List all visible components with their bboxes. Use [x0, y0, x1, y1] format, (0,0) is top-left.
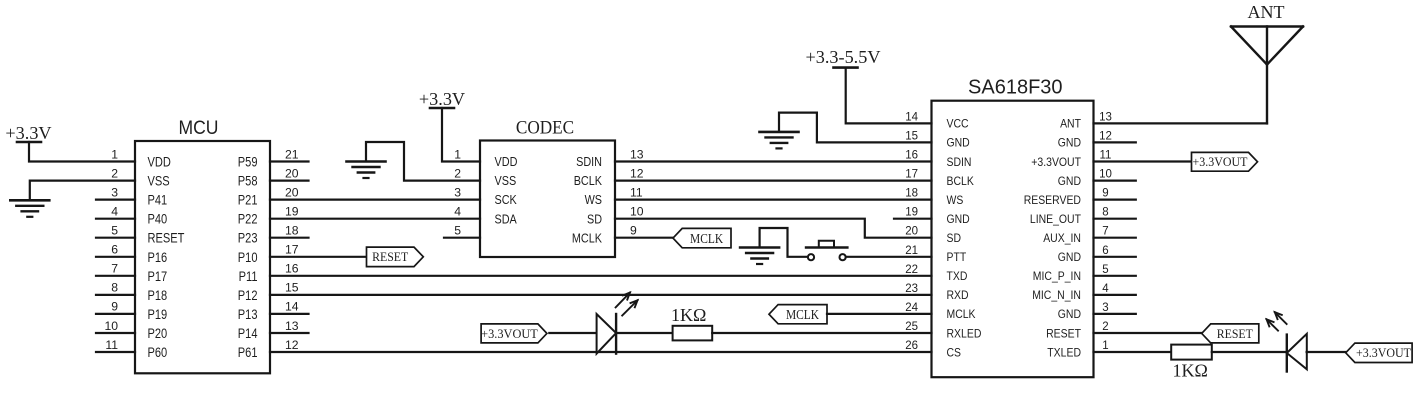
- wire MCU right pin 18 stub: [270, 237, 309, 239]
- wire MCU right pin 20 stub: [270, 180, 309, 182]
- wire CODEC pin 5 stub: [444, 237, 480, 239]
- wire MCU pin 8 stub: [96, 294, 135, 296]
- svg-text:SA618F30: SA618F30: [968, 77, 1063, 99]
- svg-text:RESET: RESET: [372, 249, 408, 264]
- svg-text:17: 17: [285, 243, 299, 257]
- svg-text:12: 12: [630, 166, 644, 180]
- net label MCLK (SA618F30 side): [769, 305, 827, 324]
- svg-text:1KΩ: 1KΩ: [671, 305, 706, 325]
- wire MCU pin 6 stub: [96, 256, 135, 258]
- net label +3.3VOUT (pin 11): [1192, 152, 1258, 171]
- wire SA618F30 pin 19 stub: [894, 218, 932, 220]
- svg-text:P13: P13: [238, 307, 258, 323]
- svg-text:VSS: VSS: [148, 174, 170, 190]
- svg-text:3: 3: [1102, 302, 1108, 314]
- svg-text:3: 3: [454, 185, 461, 199]
- svg-text:6: 6: [111, 243, 118, 257]
- svg-text:1KΩ: 1KΩ: [1173, 361, 1208, 381]
- wire +3.3V to CODEC pin 1 (VDD): [442, 108, 480, 162]
- svg-text:GND: GND: [947, 136, 970, 150]
- wire SA618F30 right pin stub row 4: [1094, 218, 1136, 220]
- svg-text:17: 17: [905, 169, 918, 181]
- svg-text:1: 1: [111, 147, 118, 161]
- svg-text:11: 11: [630, 185, 643, 199]
- svg-text:P61: P61: [238, 345, 258, 361]
- wire SA618F30 pin 1 (TXLED) to resistor R2: [1094, 351, 1172, 353]
- svg-text:RESET: RESET: [148, 231, 185, 247]
- svg-text:+3.3VOUT: +3.3VOUT: [1031, 155, 1081, 169]
- wire SA618F30 right pin stub row 6: [1094, 256, 1136, 258]
- svg-text:BCLK: BCLK: [574, 173, 602, 188]
- svg-text:RXD: RXD: [947, 288, 969, 302]
- ground (SA618F30 pin 15): [760, 132, 799, 149]
- svg-text:GND: GND: [1058, 250, 1081, 264]
- svg-text:SDA: SDA: [495, 211, 517, 226]
- wire MCU P10 to RESET label: [270, 256, 367, 258]
- svg-text:10: 10: [1099, 169, 1112, 181]
- svg-text:8: 8: [111, 281, 118, 295]
- svg-text:8: 8: [1102, 207, 1108, 219]
- svg-text:CS: CS: [947, 345, 962, 359]
- wire +3.3V to MCU pin 1 (VDD): [29, 142, 135, 162]
- svg-text:P40: P40: [148, 212, 168, 228]
- svg-text:SDIN: SDIN: [947, 155, 972, 169]
- svg-text:WS: WS: [947, 193, 964, 207]
- wire MCU P61 to SA618F30 CS: [270, 351, 932, 353]
- SA618F30 U3 box: [932, 101, 1094, 378]
- power +3.3-5.5V: [806, 47, 881, 68]
- svg-text:SD: SD: [587, 211, 602, 226]
- wire LED D2 anode to +3.3VOUT label: [1307, 351, 1346, 353]
- svg-text:2: 2: [1102, 321, 1108, 333]
- svg-text:P41: P41: [148, 193, 168, 209]
- svg-text:12: 12: [1099, 130, 1112, 142]
- wire MCU P11 to SA618F30 TXD: [270, 275, 932, 277]
- wire SA618F30 right pin stub row 0: [1094, 141, 1136, 143]
- svg-text:GND: GND: [1058, 307, 1081, 321]
- svg-text:5: 5: [454, 224, 461, 238]
- wire MCU pin 7 stub: [96, 275, 135, 277]
- svg-text:P60: P60: [148, 345, 168, 361]
- svg-text:21: 21: [285, 147, 299, 161]
- wire SA618F30 right pin stub row 5: [1094, 237, 1136, 239]
- resistor R1: [673, 326, 713, 341]
- svg-text:P14: P14: [238, 326, 258, 342]
- svg-text:+3.3-5.5V: +3.3-5.5V: [806, 47, 881, 67]
- svg-text:22: 22: [905, 264, 918, 276]
- svg-text:19: 19: [905, 207, 918, 219]
- svg-text:13: 13: [285, 319, 299, 333]
- net label +3.3VOUT (TXLED): [1346, 343, 1412, 362]
- svg-text:CODEC: CODEC: [516, 119, 574, 139]
- svg-text:16: 16: [905, 150, 918, 162]
- svg-text:SD: SD: [947, 231, 962, 245]
- svg-text:11: 11: [1100, 150, 1112, 162]
- wire MCU P12 to SA618F30 RXD: [270, 294, 932, 296]
- CODEC U2 box: [480, 141, 615, 258]
- svg-text:MIC_N_IN: MIC_N_IN: [1032, 288, 1081, 302]
- svg-text:+3.3V: +3.3V: [419, 89, 465, 109]
- wire CODEC BCLK to SA618F30 BCLK: [615, 180, 932, 182]
- svg-text:GND: GND: [1058, 136, 1081, 150]
- svg-text:SCK: SCK: [495, 192, 517, 207]
- svg-text:P18: P18: [148, 288, 168, 304]
- svg-text:3: 3: [111, 185, 118, 199]
- svg-text:P17: P17: [148, 269, 168, 285]
- svg-text:18: 18: [285, 224, 299, 238]
- svg-text:9: 9: [111, 300, 118, 314]
- svg-text:RESET: RESET: [1046, 326, 1081, 340]
- svg-text:GND: GND: [1058, 174, 1081, 188]
- svg-text:RXLED: RXLED: [947, 326, 982, 340]
- svg-text:23: 23: [905, 283, 918, 295]
- svg-text:9: 9: [1102, 188, 1108, 200]
- svg-text:TXD: TXD: [947, 269, 968, 283]
- svg-text:AUX_IN: AUX_IN: [1043, 231, 1081, 245]
- wire SA618F30 pin 2 (RESET) to label: [1094, 332, 1202, 334]
- wire MCU pin 3 stub: [96, 199, 135, 201]
- wire CODEC MCLK to MCLK label: [615, 237, 673, 239]
- svg-text:20: 20: [905, 226, 918, 238]
- net label RESET (MCU side): [367, 247, 424, 267]
- svg-text:WS: WS: [585, 192, 603, 207]
- svg-text:13: 13: [1099, 111, 1112, 123]
- svg-text:+3.3VOUT: +3.3VOUT: [1356, 345, 1411, 360]
- svg-text:P22: P22: [238, 212, 258, 228]
- svg-text:10: 10: [104, 319, 118, 333]
- ground (CODEC VSS): [347, 162, 386, 179]
- svg-text:P10: P10: [238, 250, 258, 266]
- svg-text:MCLK: MCLK: [690, 231, 723, 246]
- svg-text:BCLK: BCLK: [947, 174, 975, 188]
- svg-text:21: 21: [905, 245, 918, 257]
- wire SA618F30 pin 13 (ANT) to antenna: [1094, 122, 1268, 124]
- svg-text:12: 12: [285, 338, 299, 352]
- wire LED D1 cathode to resistor R1: [616, 332, 673, 334]
- svg-text:19: 19: [285, 205, 299, 219]
- wire resistor R1 to SA618F30 pin 25 (RXLED): [712, 332, 931, 334]
- net label RESET (SA618F30 side): [1202, 324, 1259, 343]
- wire MCU right pin 21 stub: [270, 160, 309, 162]
- wire MCU P21 to CODEC SCK: [270, 199, 480, 201]
- power +3.3V (MCU): [5, 123, 51, 143]
- wire MCU pin 10 stub: [96, 332, 135, 334]
- MCU U1 box: [135, 141, 270, 373]
- svg-text:15: 15: [285, 281, 299, 295]
- svg-text:11: 11: [105, 338, 118, 352]
- wire MCU pin 11 stub: [96, 351, 135, 353]
- antenna ANT: [1231, 2, 1303, 123]
- svg-text:24: 24: [905, 302, 918, 314]
- wire MCU pin 2 (VSS) to ground: [30, 181, 135, 200]
- resistor R2: [1171, 345, 1212, 360]
- svg-text:VDD: VDD: [495, 154, 518, 169]
- svg-text:MCLK: MCLK: [947, 307, 977, 321]
- svg-text:13: 13: [630, 147, 644, 161]
- svg-text:ANT: ANT: [1060, 117, 1081, 131]
- svg-text:4: 4: [111, 205, 118, 219]
- svg-text:ANT: ANT: [1248, 2, 1285, 22]
- wire SA618F30 right pin stub row 8: [1094, 294, 1136, 296]
- svg-text:14: 14: [905, 111, 918, 123]
- svg-text:9: 9: [630, 224, 637, 238]
- LED D2: [1267, 312, 1307, 371]
- ground (MCU VSS): [10, 200, 49, 217]
- svg-text:P19: P19: [148, 307, 168, 323]
- wire SA618F30 right pin stub row 3: [1094, 199, 1136, 201]
- svg-text:MCLK: MCLK: [786, 307, 819, 322]
- svg-text:P21: P21: [238, 193, 258, 209]
- svg-text:MCU: MCU: [179, 117, 219, 139]
- svg-text:26: 26: [905, 340, 918, 352]
- svg-text:VDD: VDD: [148, 155, 171, 171]
- svg-text:7: 7: [1102, 226, 1108, 238]
- svg-text:TXLED: TXLED: [1047, 345, 1081, 359]
- svg-text:5: 5: [1102, 264, 1108, 276]
- svg-text:6: 6: [1102, 245, 1108, 257]
- svg-text:4: 4: [454, 205, 461, 219]
- wire MCU pin 4 stub: [96, 218, 135, 220]
- svg-text:4: 4: [1102, 283, 1109, 295]
- wire SA618F30 right pin stub row 7: [1094, 275, 1136, 277]
- svg-text:P59: P59: [238, 155, 258, 171]
- svg-text:P20: P20: [148, 326, 168, 342]
- svg-text:2: 2: [111, 166, 118, 180]
- svg-text:5: 5: [111, 224, 118, 238]
- wire resistor R2 to LED D2 cathode: [1212, 351, 1287, 353]
- LED D1: [597, 293, 638, 354]
- svg-text:20: 20: [285, 166, 299, 180]
- wire CODEC pin 2 (VSS) to ground: [366, 142, 480, 181]
- svg-text:VCC: VCC: [947, 117, 969, 131]
- wire MCU P22 to CODEC SDA: [270, 218, 480, 220]
- svg-text:PTT: PTT: [947, 250, 967, 264]
- svg-text:SDIN: SDIN: [576, 154, 602, 169]
- wire ground to push button: [760, 228, 809, 257]
- svg-text:20: 20: [285, 185, 299, 199]
- svg-text:1: 1: [1102, 340, 1108, 352]
- svg-text:+3.3V: +3.3V: [5, 123, 51, 143]
- wire CODEC WS to SA618F30 WS: [615, 199, 932, 201]
- svg-text:+3.3VOUT: +3.3VOUT: [1193, 154, 1248, 169]
- svg-text:14: 14: [285, 300, 299, 314]
- wire push button to SA618F30 pin 21 (PTT): [846, 256, 932, 258]
- svg-text:GND: GND: [947, 212, 970, 226]
- svg-text:16: 16: [285, 262, 299, 276]
- svg-text:P11: P11: [239, 269, 258, 285]
- push button SW1 (PTT): [806, 241, 847, 261]
- svg-text:+3.3VOUT: +3.3VOUT: [481, 326, 538, 341]
- svg-text:10: 10: [630, 205, 644, 219]
- wire MCU right pin 13 stub: [270, 332, 309, 334]
- net label +3.3VOUT (RXLED): [481, 324, 547, 343]
- wire SA618F30 right pin stub row 9: [1094, 313, 1136, 315]
- svg-text:1: 1: [454, 147, 461, 161]
- wire MCU pin 5 stub: [96, 237, 135, 239]
- svg-text:P23: P23: [238, 231, 258, 247]
- svg-text:15: 15: [905, 130, 918, 142]
- svg-text:18: 18: [905, 188, 918, 200]
- svg-text:7: 7: [111, 262, 118, 276]
- svg-text:P16: P16: [148, 250, 168, 266]
- svg-text:RESET: RESET: [1217, 326, 1253, 341]
- svg-text:LINE_OUT: LINE_OUT: [1030, 212, 1082, 226]
- net label MCLK (CODEC side): [673, 228, 731, 247]
- power +3.3V (CODEC): [419, 89, 465, 109]
- wire MCLK label to SA618F30 pin 24 (MCLK): [827, 313, 932, 315]
- ground (PTT button): [740, 248, 779, 265]
- svg-text:VSS: VSS: [495, 173, 517, 188]
- wire SA618F30 right pin stub row 2: [1094, 180, 1136, 182]
- wire CODEC SDIN to SA618F30 SDIN: [615, 160, 932, 162]
- wire MCU right pin 14 stub: [270, 313, 309, 315]
- svg-text:P12: P12: [238, 288, 258, 304]
- wire +3.3VOUT label to LED D1 anode: [549, 332, 596, 334]
- wire SA618F30 pin 11 (+3.3VOUT) to label: [1094, 160, 1192, 162]
- svg-text:P58: P58: [238, 174, 258, 190]
- svg-text:RESERVED: RESERVED: [1024, 193, 1081, 207]
- svg-text:25: 25: [905, 321, 918, 333]
- svg-text:2: 2: [454, 166, 461, 180]
- wire SA618F30 pin 15 (GND) to ground: [779, 113, 932, 143]
- wire +3.3-5.5V to SA618F30 pin 14 (VCC): [846, 68, 932, 124]
- wire CODEC SD to SA618F30 SD: [615, 219, 932, 238]
- svg-text:MIC_P_IN: MIC_P_IN: [1033, 269, 1081, 283]
- wire MCU pin 9 stub: [96, 313, 135, 315]
- svg-text:MCLK: MCLK: [572, 230, 602, 245]
